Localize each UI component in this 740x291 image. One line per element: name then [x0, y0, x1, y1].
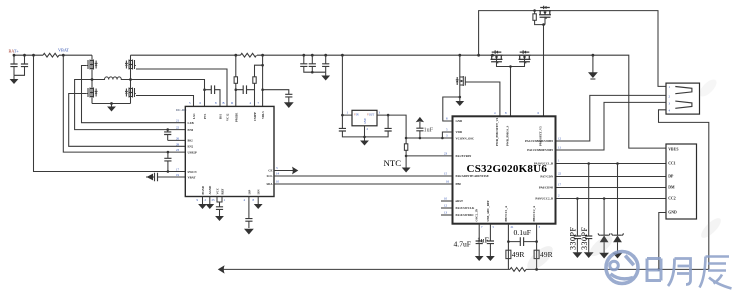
svg-text:nRST: nRST: [456, 199, 464, 203]
wire USB DP: [556, 102, 667, 150]
svg-text:CC1: CC1: [668, 162, 675, 166]
U3 top pin numbers: [494, 111, 540, 115]
svg-text:14: 14: [276, 172, 280, 176]
wire DP2: [556, 176, 667, 178]
wire USB DM: [556, 95, 667, 141]
ground battery input: [13, 75, 15, 79]
svg-text:BS1: BS1: [219, 113, 223, 119]
svg-text:PA13/SWCLK: PA13/SWCLK: [456, 206, 475, 210]
svg-text:PB7/CC1_A: PB7/CC1_A: [504, 205, 508, 222]
gray smudge 3: [697, 77, 720, 100]
svg-text:22: 22: [558, 172, 562, 176]
wire rail tap v1: [235, 55, 237, 106]
U1 top pin numbers: [189, 101, 260, 105]
svg-text:1uF: 1uF: [477, 236, 489, 245]
U3 stub SWCLK: [441, 207, 453, 209]
svg-text:VCC: VCC: [216, 188, 220, 195]
U3 left pin numbers: [444, 117, 450, 215]
capacitor C-r1: [302, 54, 305, 57]
svg-text:16: 16: [446, 180, 450, 184]
ground NTC: [405, 156, 407, 168]
capacitor C-vcc: [217, 197, 222, 207]
wire Q8 gate to MCU: [465, 82, 500, 116]
wire mid node left: [75, 80, 186, 130]
svg-text:GND: GND: [456, 119, 464, 123]
resistor R-in: [43, 53, 59, 57]
svg-text:11: 11: [558, 146, 561, 150]
wire Q8 source to MCU gnd pin: [443, 97, 460, 121]
wire Q5 gate to MCU: [543, 25, 545, 117]
capacitor C-cc2 330PF: [576, 197, 579, 200]
svg-text:EN2: EN2: [188, 145, 194, 149]
ground pin stub 3: [257, 197, 259, 205]
svg-text:OSC2_IN: OSC2_IN: [475, 208, 479, 221]
transistor Q7: [519, 50, 531, 63]
svg-text:VDD: VDD: [456, 130, 463, 134]
capacitor C-r2: [311, 54, 314, 57]
svg-text:19: 19: [176, 173, 180, 177]
svg-text:VIN: VIN: [354, 114, 359, 117]
svg-text:GND: GND: [364, 118, 367, 124]
svg-text:PWR_PMOS_S: PWR_PMOS_S: [506, 125, 510, 146]
U3 stub nRST: [441, 200, 453, 202]
wire reg input: [341, 54, 344, 57]
svg-text:PB0: PB0: [456, 182, 462, 186]
wire CC2: [556, 198, 667, 200]
svg-text:23: 23: [444, 152, 448, 156]
svg-text:USB_ADC_REF: USB_ADC_REF: [486, 200, 490, 222]
svg-text:DC-DC: DC-DC: [176, 108, 187, 112]
U3 top pin labels: [495, 117, 543, 146]
wire mid node right: [131, 80, 205, 107]
wire left leg: [91, 55, 93, 103]
capacitor C-b: [236, 90, 255, 107]
resistor R-g5: [533, 9, 536, 12]
ground bridge: [92, 103, 131, 105]
svg-text:NTC: NTC: [384, 158, 402, 168]
U1 bottom pin numbers: [197, 198, 255, 202]
ground pin stub 1: [202, 197, 204, 205]
U3 bottom pin labels: [475, 200, 537, 222]
svg-text:VC12: VC12: [226, 113, 230, 121]
svg-text:17: 17: [558, 183, 562, 187]
svg-text:10: 10: [444, 197, 448, 201]
svg-text:DP: DP: [668, 175, 674, 179]
J1 pin numbers: [669, 85, 671, 113]
U1 left pin labels: [188, 121, 198, 179]
wire gate bottom-left: [69, 94, 186, 147]
connector J1 box: [666, 83, 700, 114]
capacitor Cin1: [13, 55, 15, 64]
wire gate top-right: [136, 69, 227, 106]
svg-text:VCONN_OSC: VCONN_OSC: [456, 136, 475, 140]
svg-text:12: 12: [444, 204, 448, 208]
svg-text:SWCN: SWCN: [188, 170, 198, 174]
wire reg output: [377, 115, 406, 156]
svg-text:LX1: LX1: [192, 113, 196, 119]
svg-text:ISN: ISN: [257, 189, 261, 195]
wire I2C SCL: [274, 175, 453, 177]
ground pin stub 2: [209, 197, 211, 205]
J2 pin labels: [668, 147, 678, 214]
wire rail tap v2: [255, 65, 263, 90]
svg-text:DM: DM: [668, 186, 675, 190]
wire gate top-left: [82, 66, 186, 123]
transistor Q8 nmos: [458, 54, 461, 57]
svg-text:CMPP: CMPP: [253, 112, 257, 121]
wire I2C SDA: [274, 183, 453, 185]
ground Q8 source: [459, 96, 462, 99]
svg-text:PA1/EVRIN: PA1/EVRIN: [456, 154, 473, 158]
wire NTC to IC: [406, 155, 452, 157]
gray smudge 4: [586, 232, 615, 259]
power arrow VDD: [416, 117, 424, 122]
svg-text:PA9/UCC2_B: PA9/UCC2_B: [535, 197, 553, 201]
J1 contact prong upper: [675, 87, 692, 94]
svg-text:BAT+: BAT+: [9, 49, 20, 54]
svg-text:EN0: EN0: [188, 128, 194, 132]
capacitor C-c1: [168, 139, 186, 141]
svg-text:B: B: [223, 101, 225, 105]
diode D1: [603, 197, 606, 200]
J1 contact prong lower: [675, 101, 692, 108]
svg-text:PMID1: PMID1: [235, 112, 239, 122]
transistor Q6: [491, 50, 503, 63]
U3 bottom pin numbers: [481, 225, 541, 229]
connector J2 box: [666, 144, 697, 219]
U1 bottom pin labels: [201, 185, 261, 195]
wire DM2: [556, 187, 667, 189]
capacitor C-r3: [324, 54, 327, 57]
wire VOUT rail: [131, 55, 667, 148]
svg-text:25: 25: [212, 198, 216, 202]
wire CC2_A: [536, 224, 538, 270]
wire right leg: [130, 55, 132, 103]
svg-text:15: 15: [444, 172, 448, 176]
svg-text:PMOSFET_V5: PMOSFET_V5: [538, 126, 542, 146]
wire CC1: [556, 163, 667, 165]
svg-text:PA7/CDN: PA7/CDN: [540, 175, 553, 179]
capacitor C-4u7: [478, 224, 480, 241]
capacitor C-cc1 330PF: [587, 162, 590, 165]
capacitor Cin2: [24, 55, 26, 64]
svg-text:21: 21: [176, 119, 180, 123]
svg-text:AGND: AGND: [208, 185, 212, 195]
svg-text:PA6/ADINTP/ADINT4SE: PA6/ADINTP/ADINT4SE: [456, 174, 489, 178]
gray smudge 2: [698, 215, 723, 240]
arrowhead bottom rail: [218, 265, 225, 273]
svg-text:VBAT: VBAT: [188, 175, 196, 179]
ground mid caps: [325, 72, 327, 75]
resistor R-49b: [534, 250, 539, 258]
svg-text:4.7uF: 4.7uF: [454, 240, 472, 249]
U1 top pin labels: [192, 111, 265, 122]
capacitor C-01u 0.1uF: [508, 241, 536, 243]
wire VDD33: [406, 137, 452, 139]
transistor Q5 top pmos: [539, 6, 551, 19]
ic U1 box: [185, 106, 274, 196]
gray smudge 1: [523, 242, 556, 274]
svg-text:49R: 49R: [512, 250, 526, 259]
ground rail tap: [592, 54, 595, 57]
capacitor C-ldo-in: [341, 114, 344, 117]
transistor Q2: [87, 88, 98, 98]
wire riser to top rail: [477, 54, 480, 57]
U1 right arrow stub: [274, 170, 295, 172]
wire gate bottom-right: [136, 96, 194, 107]
U3 stub VDD: [442, 132, 452, 138]
capacitor C-fb: [167, 151, 170, 154]
ic U3 box: [453, 116, 556, 223]
inductor L1: [92, 77, 131, 80]
svg-text:SCL: SCL: [267, 174, 273, 178]
wire J1 pin4 gnd route: [659, 110, 709, 270]
capacitor C-1u: [489, 224, 491, 241]
U3 right pin numbers: [558, 137, 562, 198]
wire sense 2: [63, 55, 185, 152]
svg-text:VBL5: VBL5: [261, 111, 265, 119]
resistor R-ntc-pullup: [404, 144, 407, 151]
wire bottom rail: [222, 268, 709, 270]
svg-text:1uF: 1uF: [424, 128, 434, 134]
resistor R-sense bottom: [510, 268, 526, 272]
svg-text:13: 13: [444, 211, 448, 215]
svg-text:VOUT: VOUT: [367, 114, 375, 117]
capacitor C-vdd 1uF: [419, 137, 422, 140]
svg-text:PA10/UCC1_B: PA10/UCC1_B: [534, 162, 553, 166]
svg-text:GND: GND: [668, 211, 677, 215]
U1 right pin numbers: [276, 166, 280, 184]
svg-text:BS2: BS2: [188, 139, 194, 143]
svg-text:PB5/CC2_A: PB5/CC2_A: [532, 205, 536, 222]
svg-text:17: 17: [176, 168, 180, 172]
diode D2: [616, 162, 619, 165]
svg-text:CC2: CC2: [668, 197, 675, 201]
svg-text:330PF: 330PF: [580, 227, 589, 250]
U3 left pin labels: [456, 119, 489, 217]
svg-text:PA6/CDN0: PA6/CDN0: [539, 186, 554, 190]
U1 left pin numbers: [176, 119, 180, 177]
wire sense 1: [34, 55, 186, 171]
node dots input: [13, 54, 16, 57]
svg-text:26: 26: [176, 136, 180, 140]
svg-text:PA14/SWDIO: PA14/SWDIO: [456, 213, 475, 217]
wire comp with series cap and off-page arrow: [146, 176, 185, 178]
wire CC1_A: [507, 224, 509, 270]
wire rail tap v3: [262, 55, 264, 106]
wire Q6 Q7 common source: [497, 59, 525, 117]
U3 stub SWDIO: [441, 214, 453, 216]
svg-text:PV1: PV1: [203, 113, 207, 119]
U3 right pin labels: [525, 139, 554, 201]
svg-text:330PF: 330PF: [568, 227, 577, 250]
svg-text:10: 10: [276, 180, 280, 184]
capacitor C-ref: [248, 197, 250, 219]
capacitor C-vreg: [261, 88, 264, 91]
svg-text:ISP: ISP: [248, 190, 252, 195]
regulator U2 box: [352, 110, 377, 126]
resistor R-49a: [506, 250, 511, 258]
capacitor C-a: [205, 90, 221, 107]
svg-text:PGND: PGND: [201, 185, 205, 194]
svg-text:PA11/USBDP/UDP2: PA11/USBDP/UDP2: [527, 148, 553, 152]
svg-text:VBAT: VBAT: [58, 48, 69, 53]
svg-text:VBUS: VBUS: [668, 147, 678, 151]
svg-text:12: 12: [558, 137, 562, 141]
U1 right pin labels: [266, 169, 273, 187]
resistor R-snub: [241, 53, 257, 57]
transistor Q1: [87, 60, 98, 70]
svg-text:SDA: SDA: [266, 182, 273, 186]
svg-text:USB2P: USB2P: [188, 150, 197, 154]
svg-text:22: 22: [176, 126, 180, 130]
wire VBAT rail: [14, 54, 92, 56]
svg-text:28: 28: [176, 142, 180, 146]
transistor Q3: [125, 60, 136, 70]
svg-text:REF: REF: [221, 188, 225, 194]
svg-text:PWR_PMOSFET_V4: PWR_PMOSFET_V4: [495, 117, 499, 146]
capacitor C-ldo-out: [387, 114, 390, 117]
svg-text:23: 23: [176, 148, 180, 152]
wire J2 gnd: [659, 213, 666, 270]
svg-text:CE: CE: [268, 169, 272, 173]
transistor Q4: [125, 88, 136, 98]
junction mid-right: [203, 88, 206, 91]
svg-text:0.1uF: 0.1uF: [514, 228, 532, 237]
svg-text:LXB: LXB: [188, 121, 194, 125]
ground regulator: [364, 126, 366, 141]
